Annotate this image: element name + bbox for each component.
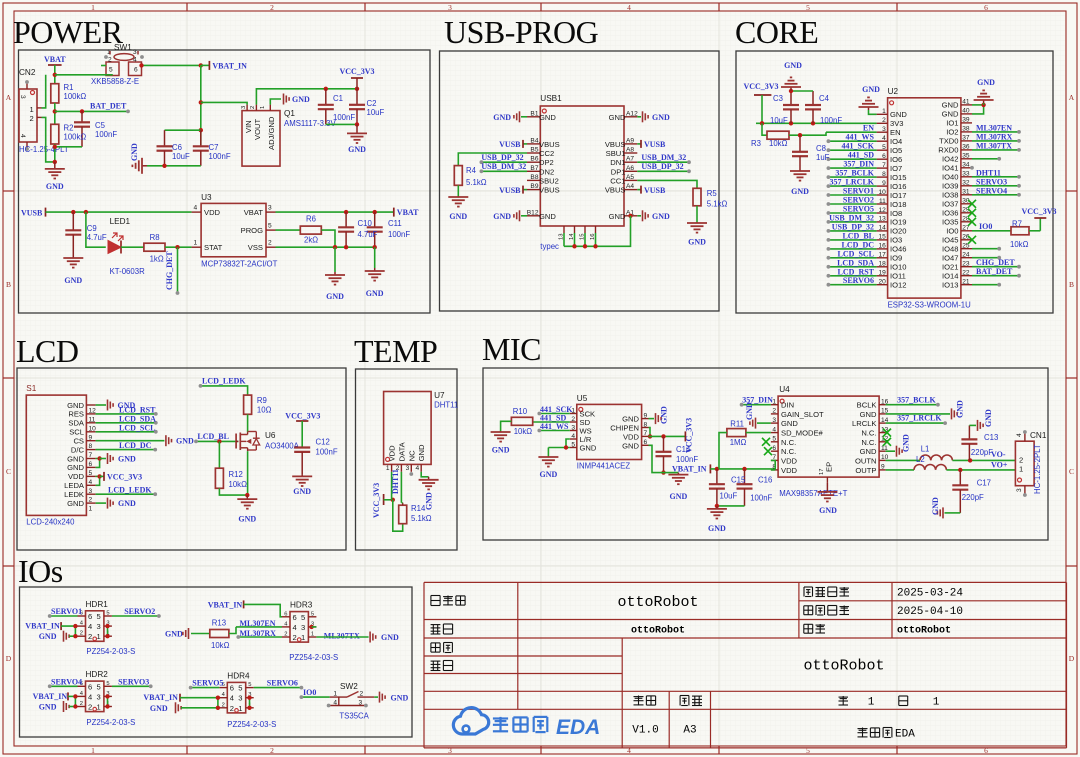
svg-text:GAIN_SLOT: GAIN_SLOT xyxy=(781,410,824,419)
svg-text:2: 2 xyxy=(882,117,886,124)
svg-text:GND: GND xyxy=(539,212,556,221)
svg-text:typec: typec xyxy=(540,242,559,251)
svg-text:34: 34 xyxy=(962,162,970,169)
svg-text:IO17: IO17 xyxy=(890,191,906,200)
svg-text:A6: A6 xyxy=(626,165,634,172)
svg-text:VDD: VDD xyxy=(781,466,798,475)
svg-text:6: 6 xyxy=(230,684,234,693)
svg-text:A4: A4 xyxy=(626,183,634,190)
svg-text:VCC_3V3: VCC_3V3 xyxy=(285,412,320,421)
svg-text:SERVO6: SERVO6 xyxy=(267,679,298,688)
svg-text:PROG: PROG xyxy=(241,226,263,235)
svg-text:5: 5 xyxy=(106,611,109,617)
svg-text:DN1: DN1 xyxy=(610,158,625,167)
svg-text:HDR3: HDR3 xyxy=(290,601,313,610)
svg-text:7: 7 xyxy=(882,162,886,169)
svg-text:6: 6 xyxy=(134,67,138,74)
svg-text:IO38: IO38 xyxy=(942,191,958,200)
svg-text:IO18: IO18 xyxy=(890,200,906,209)
svg-text:4: 4 xyxy=(19,134,26,138)
svg-text:4: 4 xyxy=(194,205,198,212)
svg-text:PZ254-2-03-S: PZ254-2-03-S xyxy=(86,647,135,656)
svg-text:5.1kΩ: 5.1kΩ xyxy=(411,514,432,523)
svg-text:GND: GND xyxy=(540,470,558,479)
svg-text:GND: GND xyxy=(652,212,670,221)
svg-text:GND: GND xyxy=(862,85,880,94)
svg-text:GND: GND xyxy=(977,78,995,87)
svg-text:8: 8 xyxy=(644,421,648,428)
svg-text:PZ254-2-03-S: PZ254-2-03-S xyxy=(86,718,135,727)
svg-text:GND: GND xyxy=(708,524,726,533)
svg-text:1: 1 xyxy=(260,106,266,109)
svg-text:EDA: EDA xyxy=(556,716,600,739)
svg-text:R5: R5 xyxy=(707,189,718,198)
svg-text:GND: GND xyxy=(64,276,82,285)
svg-text:VDD: VDD xyxy=(68,472,85,481)
svg-text:GND: GND xyxy=(67,463,84,472)
svg-text:GND: GND xyxy=(670,492,688,501)
svg-text:40: 40 xyxy=(962,108,970,115)
svg-text:R2: R2 xyxy=(64,124,74,133)
svg-text:R1: R1 xyxy=(64,83,74,92)
svg-text:VDD: VDD xyxy=(623,432,640,441)
svg-text:3V3: 3V3 xyxy=(890,119,904,128)
svg-text:2: 2 xyxy=(772,408,776,415)
svg-text:14: 14 xyxy=(878,225,886,232)
svg-text:A12: A12 xyxy=(626,110,638,117)
svg-text:21: 21 xyxy=(962,279,970,286)
svg-text:U6: U6 xyxy=(265,431,276,440)
svg-text:SBU2: SBU2 xyxy=(539,176,559,185)
svg-text:9: 9 xyxy=(644,412,648,419)
svg-text:VBAT: VBAT xyxy=(44,55,66,64)
svg-text:EN: EN xyxy=(863,124,874,133)
svg-text:DP2: DP2 xyxy=(539,158,554,167)
svg-text:IO4: IO4 xyxy=(890,137,902,146)
svg-text:GND: GND xyxy=(67,454,84,463)
svg-text:6: 6 xyxy=(882,153,886,160)
svg-text:EDA: EDA xyxy=(895,729,915,741)
svg-text:357_LRCLK: 357_LRCLK xyxy=(830,178,875,187)
svg-text:GND: GND xyxy=(165,630,183,639)
svg-text:3: 3 xyxy=(772,417,776,424)
svg-text:VBAT_IN: VBAT_IN xyxy=(143,693,178,702)
svg-text:220pF: 220pF xyxy=(971,448,993,457)
svg-text:MAX98357AETE+T: MAX98357AETE+T xyxy=(779,489,847,498)
svg-text:GND: GND xyxy=(493,113,511,122)
svg-text:SW1: SW1 xyxy=(114,43,132,52)
svg-text:C2: C2 xyxy=(367,99,377,108)
svg-text:C: C xyxy=(6,467,11,476)
svg-text:441_WS: 441_WS xyxy=(846,133,875,142)
svg-text:GND: GND xyxy=(622,415,639,424)
svg-text:GND: GND xyxy=(391,694,409,703)
svg-text:4: 4 xyxy=(627,3,631,12)
svg-text:4.7uF: 4.7uF xyxy=(358,230,378,239)
svg-text:SERVO4: SERVO4 xyxy=(51,677,82,686)
svg-text:GND: GND xyxy=(860,410,877,419)
svg-text:2: 2 xyxy=(222,702,225,708)
svg-text:B7: B7 xyxy=(530,165,538,172)
svg-text:2: 2 xyxy=(88,703,92,712)
svg-text:VIN: VIN xyxy=(244,120,253,133)
svg-text:DATA: DATA xyxy=(397,441,406,461)
svg-text:6: 6 xyxy=(644,439,648,446)
svg-text:31: 31 xyxy=(962,189,970,196)
svg-text:GND: GND xyxy=(942,101,959,110)
svg-text:NC: NC xyxy=(407,450,416,461)
svg-text:100nF: 100nF xyxy=(820,116,842,125)
svg-text:R12: R12 xyxy=(229,470,243,479)
svg-text:VCC_3V3: VCC_3V3 xyxy=(743,82,778,91)
svg-text:220pF: 220pF xyxy=(962,493,984,502)
svg-text:USB_DM_32: USB_DM_32 xyxy=(481,162,526,171)
svg-text:MIC: MIC xyxy=(482,331,541,367)
svg-text:V1.0: V1.0 xyxy=(632,725,658,737)
svg-text:GND: GND xyxy=(745,402,754,420)
svg-text:PZ254-2-03-S: PZ254-2-03-S xyxy=(289,653,338,662)
svg-text:VBUS: VBUS xyxy=(605,186,626,195)
svg-text:A7: A7 xyxy=(626,156,634,163)
svg-text:1: 1 xyxy=(311,632,314,638)
svg-text:DHT11: DHT11 xyxy=(434,401,458,410)
svg-text:22: 22 xyxy=(962,270,970,277)
svg-text:5: 5 xyxy=(106,681,109,687)
svg-text:TS35CA: TS35CA xyxy=(339,712,369,721)
svg-text:1: 1 xyxy=(97,632,101,641)
svg-text:GND: GND xyxy=(150,704,168,713)
svg-text:A3: A3 xyxy=(683,725,696,737)
svg-text:GND: GND xyxy=(784,61,802,70)
svg-text:3: 3 xyxy=(406,465,410,472)
svg-text:IO0: IO0 xyxy=(303,688,316,697)
svg-text:2: 2 xyxy=(80,701,83,707)
svg-text:VCC_3V3: VCC_3V3 xyxy=(372,483,381,518)
svg-text:GND: GND xyxy=(326,292,344,301)
svg-text:IO16: IO16 xyxy=(890,182,906,191)
svg-text:24: 24 xyxy=(962,252,970,259)
svg-text:20: 20 xyxy=(878,279,886,286)
svg-text:37: 37 xyxy=(962,135,970,142)
svg-text:ottoRobot: ottoRobot xyxy=(803,658,884,675)
svg-text:LCD_SDA: LCD_SDA xyxy=(119,414,156,423)
svg-text:B6: B6 xyxy=(530,156,538,163)
svg-text:1kΩ: 1kΩ xyxy=(150,255,164,264)
svg-text:C3: C3 xyxy=(773,94,783,103)
svg-text:SERVO5: SERVO5 xyxy=(843,205,874,214)
svg-text:IO19: IO19 xyxy=(890,218,906,227)
svg-text:357_DIN: 357_DIN xyxy=(843,160,874,169)
svg-text:IO35: IO35 xyxy=(942,218,958,227)
svg-text:5: 5 xyxy=(109,67,113,74)
svg-text:LED1: LED1 xyxy=(110,217,131,226)
svg-text:10kΩ: 10kΩ xyxy=(211,641,230,650)
svg-text:B: B xyxy=(6,280,11,289)
svg-text:USB_DP_32: USB_DP_32 xyxy=(832,222,874,231)
svg-text:10Ω: 10Ω xyxy=(257,406,272,415)
svg-text:USB-PROG: USB-PROG xyxy=(444,14,599,50)
svg-text:13: 13 xyxy=(878,216,886,223)
svg-text:IO39: IO39 xyxy=(942,182,958,191)
svg-text:U5: U5 xyxy=(577,394,588,403)
svg-text:B5: B5 xyxy=(530,147,538,154)
svg-text:10uF: 10uF xyxy=(720,492,738,501)
svg-text:1MΩ: 1MΩ xyxy=(730,438,747,447)
svg-text:IO12: IO12 xyxy=(890,281,906,290)
svg-text:10kΩ: 10kΩ xyxy=(1010,240,1029,249)
svg-text:16: 16 xyxy=(878,243,886,250)
svg-text:IO47: IO47 xyxy=(942,254,958,263)
svg-text:441_SD: 441_SD xyxy=(848,151,874,160)
svg-text:100nF: 100nF xyxy=(95,130,117,139)
svg-text:DIN: DIN xyxy=(781,401,794,410)
svg-text:VBUS: VBUS xyxy=(605,140,626,149)
svg-text:L1: L1 xyxy=(921,445,930,454)
svg-text:GND: GND xyxy=(238,515,256,524)
svg-text:5: 5 xyxy=(248,682,251,688)
svg-text:KT-0603R: KT-0603R xyxy=(110,267,145,276)
svg-text:GND: GND xyxy=(449,212,467,221)
svg-text:CHIPEN: CHIPEN xyxy=(610,424,639,433)
svg-text:ML307RX: ML307RX xyxy=(976,132,1013,141)
svg-text:C16: C16 xyxy=(758,476,772,485)
svg-text:IO20: IO20 xyxy=(890,227,906,236)
svg-text:B8: B8 xyxy=(530,174,538,181)
svg-text:Q1: Q1 xyxy=(284,109,295,118)
svg-text:VBAT_IN: VBAT_IN xyxy=(212,62,247,71)
svg-text:POWER: POWER xyxy=(13,14,124,50)
svg-text:IO6: IO6 xyxy=(890,155,902,164)
svg-text:10: 10 xyxy=(878,189,886,196)
svg-text:2025-03-24: 2025-03-24 xyxy=(897,588,963,600)
svg-text:10uF: 10uF xyxy=(367,108,385,117)
svg-text:10kΩ: 10kΩ xyxy=(514,427,533,436)
svg-text:VUSB: VUSB xyxy=(21,209,43,218)
svg-text:100nF: 100nF xyxy=(333,113,355,122)
svg-text:5: 5 xyxy=(268,223,272,230)
svg-text:SD_MODE#: SD_MODE# xyxy=(781,429,824,438)
svg-text:IO3: IO3 xyxy=(890,236,902,245)
svg-text:GND: GND xyxy=(417,444,426,461)
svg-text:DN2: DN2 xyxy=(539,167,554,176)
svg-text:SERVO6: SERVO6 xyxy=(843,276,874,285)
svg-text:A9: A9 xyxy=(626,137,634,144)
svg-text:LCD_SCL: LCD_SCL xyxy=(119,423,155,432)
svg-text:D: D xyxy=(6,654,12,663)
svg-text:BAT_DET: BAT_DET xyxy=(976,267,1013,276)
svg-text:U7: U7 xyxy=(434,391,445,400)
svg-text:DHT11: DHT11 xyxy=(976,168,1001,177)
svg-text:IO14: IO14 xyxy=(942,272,958,281)
svg-text:R9: R9 xyxy=(257,396,267,405)
svg-text:VBUS: VBUS xyxy=(539,186,560,195)
svg-text:RXD0: RXD0 xyxy=(938,146,958,155)
svg-text:1: 1 xyxy=(89,506,93,513)
svg-text:GND: GND xyxy=(292,95,310,104)
svg-text:IO0: IO0 xyxy=(946,227,958,236)
svg-text:LCD_RST: LCD_RST xyxy=(119,405,156,414)
svg-text:GND: GND xyxy=(67,401,84,410)
svg-text:VOUT: VOUT xyxy=(253,119,262,140)
svg-text:R11: R11 xyxy=(730,420,744,429)
svg-text:GND: GND xyxy=(293,487,311,496)
svg-text:LCD_DC: LCD_DC xyxy=(119,441,152,450)
svg-text:5: 5 xyxy=(238,684,242,693)
svg-text:6: 6 xyxy=(293,613,297,622)
svg-text:IO45: IO45 xyxy=(942,236,958,245)
svg-text:LCD_RST: LCD_RST xyxy=(838,267,875,276)
svg-text:32: 32 xyxy=(962,180,970,187)
svg-text:CC1: CC1 xyxy=(610,176,625,185)
svg-text:10kΩ: 10kΩ xyxy=(229,480,248,489)
svg-text:5: 5 xyxy=(806,3,810,12)
svg-text:5.1kΩ: 5.1kΩ xyxy=(707,200,728,209)
svg-text:18: 18 xyxy=(878,261,886,268)
svg-text:CN1: CN1 xyxy=(1030,431,1047,440)
svg-text:GND: GND xyxy=(130,143,139,161)
svg-text:5.1kΩ: 5.1kΩ xyxy=(466,178,487,187)
svg-text:GND: GND xyxy=(860,447,877,456)
svg-text:STAT: STAT xyxy=(204,243,223,252)
svg-text:VDD: VDD xyxy=(204,208,221,217)
svg-text:VBAT: VBAT xyxy=(244,208,264,217)
svg-text:GND: GND xyxy=(118,499,136,508)
svg-text:VO-: VO- xyxy=(991,450,1006,459)
svg-text:N.C.: N.C. xyxy=(861,429,876,438)
svg-text:GND: GND xyxy=(902,434,911,452)
svg-text:GND: GND xyxy=(609,113,626,122)
svg-text:GND: GND xyxy=(366,289,384,298)
svg-text:IO48: IO48 xyxy=(942,245,958,254)
svg-text:R13: R13 xyxy=(212,619,226,628)
svg-text:GND: GND xyxy=(39,632,57,641)
svg-text:15: 15 xyxy=(878,234,886,241)
svg-text:GND: GND xyxy=(931,497,940,515)
svg-text:4: 4 xyxy=(333,700,337,707)
svg-text:AO3400A: AO3400A xyxy=(265,442,300,451)
svg-text:441_SCK: 441_SCK xyxy=(842,142,875,151)
svg-text:4: 4 xyxy=(293,623,297,632)
svg-text:100nF: 100nF xyxy=(388,230,410,239)
svg-text:2: 2 xyxy=(270,746,274,755)
svg-text:XKB5858-Z-E: XKB5858-Z-E xyxy=(91,77,139,86)
svg-text:LCD_LEDK: LCD_LEDK xyxy=(202,376,246,385)
svg-text:B9: B9 xyxy=(530,183,538,190)
svg-text:VUSB: VUSB xyxy=(644,140,666,149)
svg-text:VDD: VDD xyxy=(781,456,798,465)
svg-text:2: 2 xyxy=(360,690,364,697)
svg-text:C11: C11 xyxy=(388,219,402,228)
svg-text:C12: C12 xyxy=(316,438,330,447)
svg-text:2: 2 xyxy=(88,632,92,641)
svg-text:39: 39 xyxy=(962,117,970,124)
svg-text:GND: GND xyxy=(660,406,669,424)
svg-text:U4: U4 xyxy=(779,385,790,394)
svg-text:HC-1.25-2PLT: HC-1.25-2PLT xyxy=(1033,444,1042,494)
svg-text:IO2: IO2 xyxy=(946,128,958,137)
svg-text:LCD_LEDK: LCD_LEDK xyxy=(108,486,152,495)
svg-text:441_WS: 441_WS xyxy=(540,422,569,431)
svg-text:35: 35 xyxy=(962,153,970,160)
svg-text:ML307TX: ML307TX xyxy=(976,141,1012,150)
svg-text:R10: R10 xyxy=(513,407,528,416)
svg-text:HDR1: HDR1 xyxy=(86,600,109,609)
svg-text:GND: GND xyxy=(118,455,136,464)
svg-text:GND: GND xyxy=(176,437,194,446)
svg-text:3: 3 xyxy=(571,424,575,431)
svg-text:5: 5 xyxy=(571,441,575,448)
svg-text:VUSB: VUSB xyxy=(499,186,521,195)
svg-text:IO1: IO1 xyxy=(946,119,958,128)
svg-text:1: 1 xyxy=(301,633,305,642)
svg-text:38: 38 xyxy=(962,126,970,133)
svg-text:3: 3 xyxy=(882,126,886,133)
svg-text:1uF: 1uF xyxy=(816,153,830,162)
svg-text:10uF: 10uF xyxy=(172,152,190,161)
svg-text:357_LRCLK: 357_LRCLK xyxy=(897,414,942,423)
svg-text:100nF: 100nF xyxy=(676,455,698,464)
svg-text:GND: GND xyxy=(652,113,670,122)
svg-text:100nF: 100nF xyxy=(750,494,772,503)
svg-text:1: 1 xyxy=(772,399,776,406)
svg-text:CN2: CN2 xyxy=(19,68,36,77)
svg-text:VUSB: VUSB xyxy=(644,186,666,195)
svg-text:1: 1 xyxy=(882,108,886,115)
svg-text:C13: C13 xyxy=(984,433,998,442)
svg-text:IO7: IO7 xyxy=(890,164,902,173)
svg-text:SERVO4: SERVO4 xyxy=(976,186,1007,195)
svg-text:GND: GND xyxy=(425,492,434,510)
svg-text:1: 1 xyxy=(933,697,940,709)
svg-text:IO13: IO13 xyxy=(942,281,958,290)
svg-text:3: 3 xyxy=(133,49,137,56)
svg-text:4: 4 xyxy=(88,622,92,631)
svg-text:4: 4 xyxy=(571,433,575,440)
svg-text:CS: CS xyxy=(73,437,84,446)
svg-text:10uF: 10uF xyxy=(770,116,788,125)
svg-text:2: 2 xyxy=(230,704,234,713)
svg-text:2: 2 xyxy=(270,3,274,12)
svg-text:SERVO1: SERVO1 xyxy=(51,607,82,616)
svg-text:3: 3 xyxy=(359,700,363,707)
svg-text:3: 3 xyxy=(268,205,272,212)
svg-text:357_BCLK: 357_BCLK xyxy=(897,395,936,404)
svg-text:U2: U2 xyxy=(888,87,899,96)
svg-text:11: 11 xyxy=(879,198,886,205)
svg-text:L2: L2 xyxy=(916,455,925,464)
svg-text:LRCLK: LRCLK xyxy=(852,419,876,428)
svg-text:8: 8 xyxy=(882,171,886,178)
svg-text:2: 2 xyxy=(250,106,256,109)
svg-text:IO10: IO10 xyxy=(890,263,906,272)
svg-text:SERVO3: SERVO3 xyxy=(976,177,1007,186)
svg-text:SERVO2: SERVO2 xyxy=(124,607,155,616)
svg-text:A5: A5 xyxy=(626,174,634,181)
svg-text:IO8: IO8 xyxy=(890,209,902,218)
svg-text:IO9: IO9 xyxy=(890,254,902,263)
svg-text:SERVO3: SERVO3 xyxy=(118,677,149,686)
svg-text:LCD: LCD xyxy=(16,333,79,369)
svg-text:ADJ/GND: ADJ/GND xyxy=(267,116,276,150)
svg-text:C: C xyxy=(1069,467,1074,476)
svg-text:SBU1: SBU1 xyxy=(606,149,626,158)
svg-text:1: 1 xyxy=(30,105,34,114)
svg-text:VO+: VO+ xyxy=(991,461,1008,470)
svg-text:IO15: IO15 xyxy=(890,173,906,182)
svg-text:IO21: IO21 xyxy=(942,263,958,272)
svg-text:USB_DP_32: USB_DP_32 xyxy=(641,162,683,171)
svg-text:4: 4 xyxy=(882,135,886,142)
